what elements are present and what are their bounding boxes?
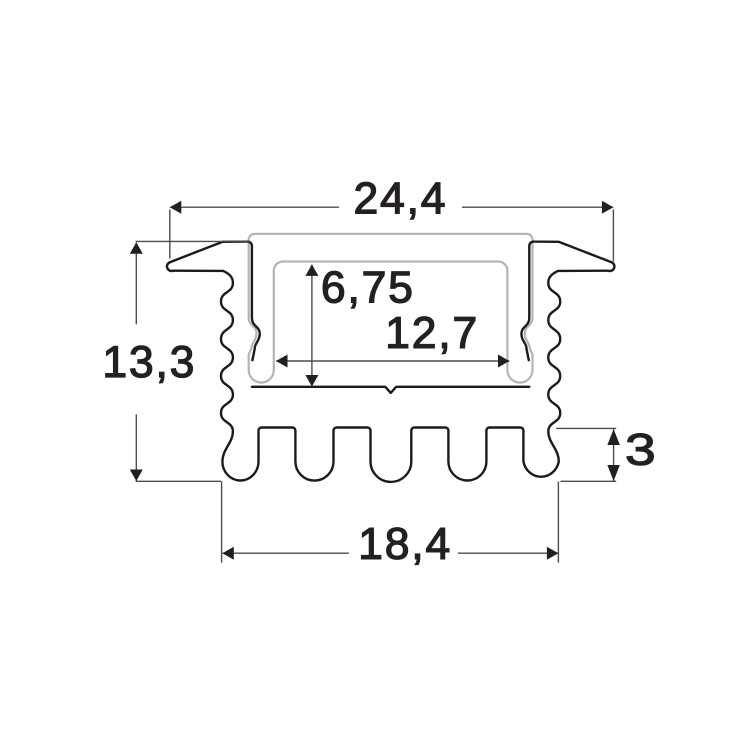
dimension 3 right	[556, 428, 616, 481]
dimension 24,4 top	[170, 206, 613, 208]
label 13,3	[106, 346, 193, 383]
diffuser cover outline (gray)	[249, 234, 533, 383]
right flange and inner wall	[521, 242, 614, 361]
label 12,7	[389, 317, 475, 354]
left flange and inner wall	[167, 242, 260, 361]
profile outer outline: flanges, scalloped sides, bottom lobes	[173, 271, 608, 482]
dimension 18,4 bottom	[223, 552, 558, 554]
label 18,4	[362, 528, 449, 565]
label 3	[627, 434, 653, 466]
label 6,75	[323, 271, 411, 308]
dimension 13,3 left	[136, 241, 251, 481]
dimension 12,7	[276, 360, 509, 362]
label 24,4	[356, 182, 444, 219]
dimension 6,75	[311, 265, 313, 387]
channel floor with V notch	[252, 387, 529, 393]
